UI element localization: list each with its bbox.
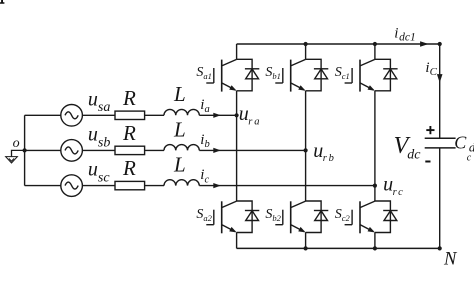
IGBT+diode S_b1 <box>275 59 328 91</box>
wire leg a <box>236 44 238 248</box>
node u_rb dot <box>304 148 308 152</box>
wire phase b segments <box>25 149 306 151</box>
svg-text:L: L <box>173 82 186 106</box>
wire top dc bus <box>237 43 440 45</box>
wire right bus upper <box>439 44 441 138</box>
svg-text:c: c <box>467 152 472 163</box>
wire bottom dc bus <box>237 247 440 249</box>
resistor R phase b <box>115 146 145 154</box>
current arrow i_C <box>437 74 443 83</box>
inductor L phase b <box>164 145 199 151</box>
node top bus leg c dot <box>373 42 377 46</box>
resistor R phase c <box>115 181 145 189</box>
svg-text:R: R <box>122 86 136 110</box>
IGBT+diode S_b2 <box>275 201 328 233</box>
current arrow i_b <box>213 148 221 153</box>
svg-text:L: L <box>173 117 186 141</box>
node o dot <box>23 148 27 152</box>
wire left bus vertical <box>24 115 26 185</box>
inductor L phase a <box>164 109 199 115</box>
node bottom bus leg c dot <box>373 246 377 250</box>
current arrow i_dc1 <box>420 41 429 47</box>
inductor L phase c <box>164 180 199 186</box>
svg-text:R: R <box>122 156 136 180</box>
wire right bus lower <box>439 148 441 249</box>
current arrow i_a <box>213 113 221 118</box>
wire leg c <box>374 44 376 248</box>
ground <box>6 150 25 163</box>
wire leg b <box>305 44 307 248</box>
AC source u_sa <box>61 105 83 127</box>
IGBT+diode S_a1 <box>206 59 259 91</box>
svg-text:N: N <box>443 250 458 270</box>
node N dot <box>438 246 442 250</box>
node top bus right corner dot <box>438 42 442 46</box>
AC source u_sc <box>61 175 83 197</box>
polarity plus <box>426 126 434 134</box>
corner text fragment top-left <box>0 0 4 4</box>
current arrow i_c <box>213 183 221 188</box>
svg-text:L: L <box>173 153 186 177</box>
node top bus leg b dot <box>304 42 308 46</box>
svg-text:R: R <box>122 121 136 145</box>
resistor R phase a <box>115 111 145 119</box>
wire phase c segments <box>25 185 375 187</box>
node bottom bus leg b dot <box>304 246 308 250</box>
IGBT+diode S_a2 <box>206 201 259 233</box>
IGBT+diode S_c1 <box>345 59 398 91</box>
polarity minus <box>425 161 430 163</box>
wire phase a segments <box>25 114 237 116</box>
IGBT+diode S_c2 <box>345 201 398 233</box>
node u_rc dot <box>373 184 377 188</box>
svg-text:o: o <box>13 136 20 151</box>
AC source u_sb <box>61 140 83 162</box>
node u_ra dot <box>235 113 239 117</box>
capacitor C_dc plates <box>425 138 456 148</box>
